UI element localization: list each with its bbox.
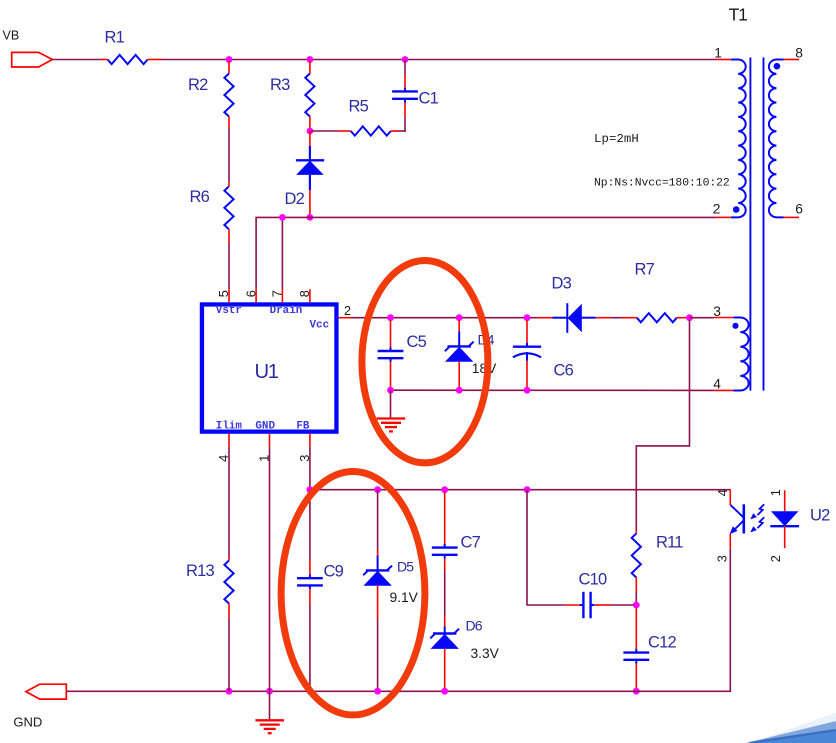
light arrow 1	[758, 504, 765, 515]
svg-text:8: 8	[297, 290, 312, 297]
svg-text:C10: C10	[579, 571, 607, 589]
wire VB to R1	[52, 59, 100, 61]
node junction R7 / pin3 / feedback tap	[686, 314, 693, 321]
pin 2 stub (Vcc)	[339, 317, 352, 319]
zener diode D6	[444, 616, 446, 627]
resistor R5	[339, 130, 351, 132]
svg-text:R7: R7	[635, 261, 655, 279]
wire C7 to D6	[444, 570, 446, 616]
wire D2 to node	[309, 190, 311, 217]
pin 4 stub (Ilim)	[228, 434, 230, 447]
node junction Vcc / C6	[524, 314, 531, 321]
svg-text:R3: R3	[270, 76, 290, 94]
wire node to T1 pin 3	[690, 317, 715, 319]
node junction FB / C10 branch	[524, 486, 531, 493]
svg-text:R6: R6	[190, 188, 210, 206]
svg-text:T1: T1	[729, 5, 747, 25]
diode D3	[537, 317, 553, 319]
svg-text:2: 2	[344, 304, 351, 318]
pin 3 stub of T1	[714, 317, 733, 319]
capacitor C7	[444, 492, 446, 545]
wire bottom rail	[66, 548, 730, 691]
transformer T1 winding pins 8-6	[769, 60, 784, 218]
wire mid rail to T1 pin 2	[256, 217, 715, 289]
capacitor C10	[565, 604, 582, 606]
node junction rail / C9	[307, 688, 314, 695]
svg-text:VB: VB	[3, 29, 20, 43]
svg-text:D3: D3	[552, 275, 572, 293]
wire C5 node to ground	[390, 390, 392, 418]
port VB	[12, 52, 53, 67]
svg-text:Np:Ns:Nvcc=180:10:22: Np:Ns:Nvcc=180:10:22	[594, 178, 730, 190]
resistor R1	[101, 59, 108, 61]
wire to ground symbol	[269, 691, 271, 720]
svg-text:C5: C5	[407, 333, 427, 351]
pin 6 stub	[255, 289, 257, 302]
wire FB pin down	[309, 447, 311, 490]
node junction D2 / rail / pin8	[307, 214, 314, 221]
node junction rail / D5	[374, 688, 381, 695]
capacitor C12	[635, 608, 637, 650]
resistor R6	[228, 182, 230, 186]
highlight ellipse around C5/D4	[362, 261, 488, 463]
svg-text:6: 6	[243, 290, 258, 297]
node junction R11 / C10 / C12	[633, 602, 640, 609]
node junction rail / U1 GND	[266, 688, 273, 695]
svg-text:D6: D6	[466, 618, 483, 634]
svg-text:C1: C1	[419, 90, 439, 108]
wire R3 to D2	[309, 131, 311, 146]
svg-text:R13: R13	[186, 562, 214, 580]
svg-text:2: 2	[713, 202, 721, 217]
node junction R3 / R5	[307, 128, 314, 135]
svg-text:Ilim: Ilim	[216, 421, 243, 433]
ground signal	[377, 417, 406, 419]
node junction rail / pin7	[279, 214, 286, 221]
pin 1 stub of T1	[716, 59, 732, 61]
optocoupler U2 phototransistor	[729, 490, 731, 505]
svg-text:C9: C9	[324, 563, 344, 581]
svg-text:FB: FB	[296, 421, 310, 433]
svg-text:6: 6	[795, 202, 803, 217]
wire R13 to rail	[228, 618, 230, 691]
svg-text:Drain: Drain	[270, 305, 303, 317]
wire R2 to R6	[228, 128, 230, 183]
svg-text:7: 7	[270, 290, 285, 297]
node junction FB / D5	[374, 486, 381, 493]
port GND	[26, 684, 66, 699]
node junction rail / R13	[226, 688, 233, 695]
node junction FB / C9	[307, 486, 314, 493]
zener diode D4	[458, 320, 460, 332]
zener diode D5	[377, 490, 379, 550]
wire R6 to U1 pin 5	[228, 243, 230, 289]
wire R11 to node	[635, 592, 637, 605]
pin 1 stub (GND)	[269, 434, 271, 447]
corner decoration blue swoosh	[750, 730, 836, 743]
resistor R7	[622, 317, 637, 319]
svg-text:Vstr: Vstr	[216, 305, 242, 317]
diode D2	[309, 146, 311, 160]
svg-text:U1: U1	[255, 361, 279, 383]
svg-text:R11: R11	[656, 534, 683, 552]
wire R3 node to R5	[311, 130, 339, 132]
resistor R13	[228, 557, 230, 561]
resistor R2	[228, 61, 230, 74]
svg-text:D2: D2	[285, 190, 305, 208]
node junction top rail / R3	[307, 56, 314, 63]
phase dot pin 3	[732, 323, 738, 329]
node junction C12 / bottom rail	[633, 688, 640, 695]
capacitor C1	[404, 60, 406, 75]
optocoupler U2 LED	[784, 490, 786, 511]
svg-text:1: 1	[768, 489, 783, 496]
node junction Vcc / C5	[387, 314, 394, 321]
ground signal	[255, 719, 284, 721]
corner decoration light blue band	[746, 721, 836, 743]
node junction rail / C5	[387, 387, 394, 394]
node junction top rail / R2	[226, 56, 233, 63]
svg-text:3: 3	[713, 304, 721, 319]
svg-text:R5: R5	[349, 98, 369, 116]
node junction rail / C6	[524, 387, 531, 394]
svg-text:8: 8	[795, 46, 803, 61]
pin 7 stub	[281, 289, 283, 302]
wire Ilim to R13	[228, 447, 230, 557]
wire top rail	[162, 59, 716, 61]
svg-text:GND: GND	[13, 715, 42, 730]
svg-text:C7: C7	[461, 534, 481, 552]
svg-text:R2: R2	[188, 76, 208, 94]
wire secondary ground rail to T1 pin 4	[391, 389, 715, 391]
svg-text:U2: U2	[810, 507, 830, 525]
resistor R11	[635, 530, 637, 534]
node junction FB / C7	[441, 486, 448, 493]
wire D3 to R7	[611, 317, 622, 319]
pin 8 stub	[309, 289, 311, 302]
wire pin 7 vertical	[281, 217, 283, 289]
node junction rail / D6	[441, 688, 448, 695]
phase dot pin 8	[774, 63, 781, 70]
svg-text:3: 3	[714, 555, 729, 562]
svg-text:4: 4	[713, 377, 721, 392]
op-amp U1 body	[202, 304, 337, 431]
node junction rail / D4	[456, 387, 463, 394]
svg-text:2: 2	[768, 555, 783, 562]
svg-text:5: 5	[216, 290, 231, 297]
highlight ellipse around C9/D5	[281, 472, 425, 715]
resistor R3	[309, 61, 311, 74]
phase dot pin 2	[733, 206, 740, 213]
wire U1 GND pin to rail	[269, 447, 271, 692]
svg-text:Vcc: Vcc	[310, 320, 330, 332]
pin 4 stub of T1	[714, 389, 733, 391]
light arrow 2	[758, 517, 765, 528]
pin 3 stub (FB)	[309, 434, 311, 447]
svg-text:3.3V: 3.3V	[471, 646, 500, 661]
pin 2 stub of T1	[716, 216, 732, 218]
capacitor C9	[309, 490, 311, 560]
node junction Vcc / D4	[456, 314, 463, 321]
wire C10 branch	[527, 490, 565, 605]
wire FB rail to opto	[310, 489, 730, 491]
transformer core	[749, 58, 751, 391]
svg-text:C12: C12	[648, 634, 676, 652]
corner decoration faint stripe	[746, 713, 836, 743]
wire Vcc rail	[352, 317, 537, 319]
wire R5 to C1	[398, 130, 406, 132]
svg-text:GND: GND	[255, 421, 275, 433]
svg-text:C6: C6	[554, 362, 574, 380]
wire feedback tap	[636, 320, 689, 530]
svg-text:R1: R1	[105, 29, 125, 47]
svg-text:9.1V: 9.1V	[390, 590, 419, 605]
transformer T1 primary winding pins 1-2	[731, 60, 746, 218]
capacitor C6	[526, 320, 528, 344]
pin 8 stub of T1	[784, 59, 800, 61]
pin 6 stub of T1	[784, 216, 800, 218]
svg-text:1: 1	[714, 46, 722, 61]
transformer T1 secondary winding pins 3-4	[733, 318, 748, 391]
svg-text:Lp=2mH: Lp=2mH	[594, 132, 639, 146]
svg-text:4: 4	[715, 489, 730, 496]
capacitor C5	[390, 320, 392, 348]
pin 5 stub	[228, 289, 230, 302]
svg-text:D5: D5	[397, 559, 414, 575]
node junction top rail / C1	[402, 56, 409, 63]
